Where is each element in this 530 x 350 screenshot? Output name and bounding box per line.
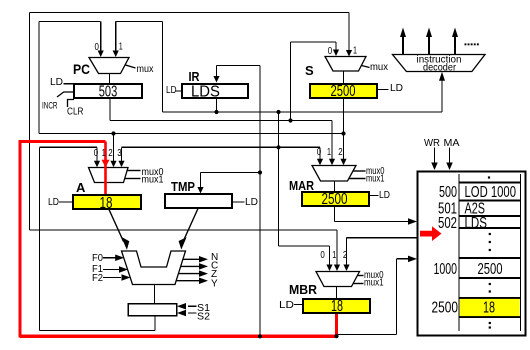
svg-text:0: 0 <box>320 250 325 261</box>
svg-text:LD: LD <box>166 85 177 96</box>
svg-text:0: 0 <box>95 42 100 53</box>
svg-text:F2: F2 <box>92 273 103 284</box>
svg-text:1: 1 <box>119 42 123 53</box>
svg-text:2500: 2500 <box>478 261 503 278</box>
svg-text:WR: WR <box>424 138 440 149</box>
svg-text:LD: LD <box>390 83 403 94</box>
svg-text:A: A <box>76 180 86 195</box>
svg-text:Y: Y <box>211 279 218 290</box>
svg-text:1: 1 <box>353 46 357 57</box>
svg-text:IR: IR <box>189 69 201 84</box>
svg-text:18: 18 <box>483 300 495 317</box>
svg-text:mux1: mux1 <box>142 175 164 186</box>
svg-text:LDS: LDS <box>191 84 220 101</box>
svg-text:1000: 1000 <box>434 261 458 278</box>
svg-text:LOD 1000: LOD 1000 <box>465 184 517 201</box>
svg-text:3: 3 <box>117 148 122 159</box>
svg-text:LD: LD <box>50 77 63 88</box>
svg-text:MBR: MBR <box>289 282 318 297</box>
svg-text:MAR: MAR <box>289 178 315 193</box>
svg-text:mux1: mux1 <box>366 174 385 185</box>
svg-text:LD: LD <box>48 197 59 208</box>
svg-text:503: 503 <box>99 84 118 101</box>
svg-text:0: 0 <box>94 148 99 159</box>
svg-text:mux: mux <box>137 64 154 75</box>
svg-text:1: 1 <box>332 250 336 261</box>
svg-text:S2: S2 <box>197 312 210 323</box>
svg-text:18: 18 <box>100 195 113 212</box>
svg-text:LD: LD <box>379 190 390 201</box>
svg-text:MA: MA <box>444 138 460 149</box>
svg-text:LDS: LDS <box>465 215 488 232</box>
svg-text:1: 1 <box>327 147 331 158</box>
svg-text:mux1: mux1 <box>364 278 384 289</box>
svg-text:CLR: CLR <box>67 107 84 118</box>
svg-text:F0: F0 <box>92 253 103 264</box>
svg-text:0: 0 <box>328 46 333 57</box>
svg-text:2: 2 <box>338 147 343 158</box>
svg-text:2: 2 <box>343 250 348 261</box>
svg-text:decoder: decoder <box>423 63 457 74</box>
svg-text:mux: mux <box>370 62 388 73</box>
svg-text:2: 2 <box>108 148 113 159</box>
svg-text:S: S <box>305 63 314 78</box>
svg-text:502: 502 <box>438 215 457 232</box>
svg-text:TMP: TMP <box>171 179 195 194</box>
svg-text:500: 500 <box>439 184 457 201</box>
svg-text:2500: 2500 <box>432 300 459 317</box>
svg-text:INCR: INCR <box>42 101 58 111</box>
svg-text:0: 0 <box>317 147 322 158</box>
svg-text:18: 18 <box>331 298 343 315</box>
svg-text:LD: LD <box>279 300 294 311</box>
svg-text:1: 1 <box>102 148 106 159</box>
svg-text:2500: 2500 <box>322 191 348 208</box>
svg-text:LD: LD <box>245 197 258 208</box>
svg-text:PC: PC <box>73 61 90 77</box>
svg-text:2500: 2500 <box>331 83 356 100</box>
